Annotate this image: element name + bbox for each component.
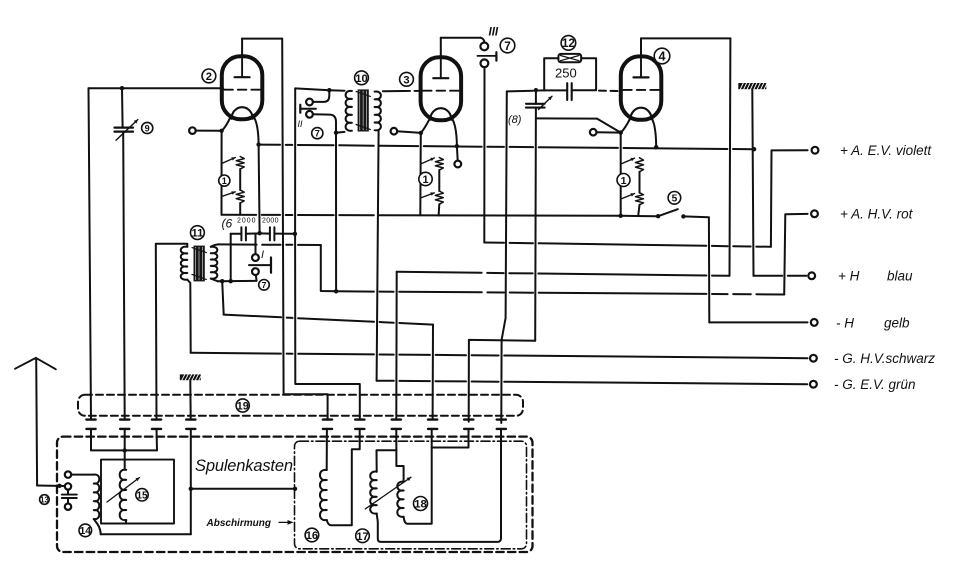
svg-text:1: 1 — [621, 175, 627, 187]
svg-text:- G. E.V. grün: - G. E.V. grün — [834, 377, 916, 392]
resistor R1 (V2) link — [239, 169, 241, 190]
wire: jack II bottom hook — [313, 114, 336, 132]
node: bus end at chassis stem — [752, 147, 756, 151]
wire: connector C drop — [395, 272, 397, 420]
terminal: below V3 cathode — [456, 146, 459, 160]
arrow: V2 pot tap lower — [222, 192, 236, 197]
wire: V4 grid row — [507, 90, 544, 91]
wire: V2 grid lead — [196, 130, 222, 132]
wire: switch to gelb drop — [683, 216, 709, 322]
wire: rot row to switch — [621, 215, 658, 217]
wire: V3 cathode-left lead — [421, 119, 430, 133]
resistor R1 (V2) upper element — [236, 157, 244, 170]
capacitor C8 (trimmer) plates — [526, 103, 545, 105]
wire: anode HT bus — [259, 145, 754, 150]
wire: V4 anode to reaction rail — [640, 38, 642, 55]
label circle 15 — [136, 489, 148, 502]
capacitor C13 (antenna series) — [62, 494, 77, 496]
connector pair (ant rail) — [86, 420, 95, 429]
transformer T10 primary coil — [346, 91, 352, 131]
svg-text:11: 11 — [191, 228, 203, 240]
label circle 9 — [142, 122, 153, 133]
wire: trimmer top stem — [535, 90, 537, 104]
jack II — [306, 99, 313, 106]
transformer T11 primary coil — [181, 247, 188, 280]
svg-text:7: 7 — [504, 39, 511, 53]
wire: caps row mid — [246, 232, 260, 234]
wire: L17 top lead — [377, 450, 397, 471]
resistor R1 (V3) lower element — [435, 191, 443, 204]
wire: small chassis stem — [189, 380, 191, 419]
chassis symbol (right) — [738, 83, 766, 89]
resistor R1 (V4) link — [639, 172, 641, 193]
node: antenna/box junction — [57, 484, 61, 488]
wire: R1 (V4) bottom — [638, 205, 639, 216]
svg-text:I: I — [261, 249, 264, 261]
jack I — [252, 254, 259, 261]
svg-text:II: II — [298, 119, 304, 129]
arrow: L18 variometer — [365, 477, 411, 509]
label circle 7 (jack III) — [500, 38, 515, 53]
node: V2 cathode bus junction — [256, 142, 260, 146]
wire: grid leak right leg — [581, 58, 596, 90]
transformer T10 core — [358, 89, 369, 131]
wire: trimmer C9 branch lower to connector — [123, 133, 125, 420]
capacitor C (grid) plates — [566, 83, 568, 100]
wire: L17 bottom route to connector F — [377, 429, 501, 542]
wire: U right leg (jack II to U junction) — [335, 133, 337, 292]
terminal: -G.H.V. schwarz — [810, 355, 817, 362]
node: L15/link junction — [123, 448, 127, 452]
wire: V2 anode drop rail x=283 — [282, 39, 327, 420]
transformer T11 secondary coil — [211, 247, 218, 279]
wire: jack I stem — [255, 234, 257, 254]
wire: rail x=295 (T10 top to coil16 bottom) — [295, 88, 360, 419]
svg-text:2: 2 — [206, 71, 212, 83]
node: row282 / caps leg — [229, 279, 233, 283]
wire: V2 cathode-left lead — [222, 118, 230, 131]
jack III top terminal — [480, 43, 488, 51]
label circle 17 — [356, 529, 370, 543]
label circle 1 (V4) — [617, 174, 630, 187]
capacitor C6a 2000pF — [240, 227, 242, 240]
svg-text:10: 10 — [355, 73, 367, 85]
jack III bottom terminal — [481, 59, 489, 67]
wire: T11 secondary top lead (U to detector) — [211, 244, 219, 246]
connector pair (coil16 top) — [323, 420, 332, 429]
label circle 16 — [305, 528, 319, 542]
svg-text:19: 19 — [237, 400, 249, 412]
wire: L16 top stem — [326, 429, 328, 470]
label circle 5 — [668, 192, 681, 205]
node: caps midpoint — [257, 231, 261, 235]
svg-text:Abschirmung: Abschirmung — [206, 518, 271, 529]
wire: link connectors 91-157 — [90, 429, 92, 451]
node: row282 / reaction drop — [220, 279, 224, 283]
wire: coil18 top jog — [396, 466, 403, 482]
coil L18 — [397, 482, 403, 517]
svg-text:16: 16 — [306, 530, 318, 542]
terminal: V3 grid — [391, 128, 398, 135]
coil L14 — [94, 474, 99, 519]
wire: rot terminal riser — [784, 214, 807, 295]
node: trimmer top junction — [534, 88, 538, 92]
wire: T10 grid-side bottom — [336, 131, 345, 134]
wire: T10 secondary bottom to gruen — [377, 130, 379, 381]
capacitor C9 (trimmer) plates — [115, 126, 134, 128]
wire: caps row left stub — [231, 233, 242, 235]
resistor R1 (V4) lower element — [636, 193, 644, 205]
wire: V2 cathode down to coupling caps — [259, 145, 260, 234]
svg-text:Spulenkasten: Spulenkasten — [195, 457, 293, 475]
wire: blau right segment — [754, 275, 807, 277]
wire: T11 secondary bottom lead — [211, 279, 218, 282]
svg-text:(8): (8) — [508, 114, 522, 126]
wire: V4 grid row corner+rail — [501, 91, 507, 423]
svg-text:12: 12 — [562, 36, 576, 50]
wire: detector HT row (to rot terminal) — [336, 291, 784, 294]
svg-text:+ A. E.V. violett: + A. E.V. violett — [840, 143, 932, 158]
terminal: V4 grid — [590, 129, 597, 136]
wire: L15 bottom to shield — [125, 520, 127, 524]
node: V4 grid junction — [619, 130, 623, 134]
wire: reaction rail drop (v2) — [729, 38, 732, 275]
connector pair (coil17/18 top) — [392, 420, 401, 429]
svg-text:7: 7 — [315, 129, 320, 139]
transformer T10 secondary coil — [375, 91, 381, 130]
wire: trimmer bottom stem — [534, 108, 537, 341]
wire: caps left leg down — [230, 234, 232, 281]
svg-text:15: 15 — [136, 490, 148, 501]
label circle 7 (jack II) — [312, 128, 323, 139]
jack 13 terminals — [65, 471, 71, 477]
node: V2 grid junction — [219, 129, 223, 133]
svg-text:250: 250 — [555, 66, 577, 81]
wire: schwarz row — [191, 353, 808, 358]
tube V2 (circled 2) — [222, 56, 262, 119]
wire: V3 grid lead — [397, 131, 421, 133]
wire: V4 grid dashed row — [599, 90, 620, 92]
svg-text:2000: 2000 — [262, 218, 279, 225]
shield box inner (dash-dot) — [295, 441, 527, 549]
wire: V3 anode to jack III — [440, 38, 442, 56]
svg-text:5: 5 — [672, 194, 678, 205]
capacitor C6b 2000pF — [269, 227, 271, 240]
connector pair (ground) — [186, 420, 195, 429]
label circle 10 — [355, 71, 369, 85]
coil L15 — [120, 470, 127, 521]
capacitor C9 trimmer arrow — [116, 120, 138, 141]
connector pair (trimmer rail) — [120, 420, 129, 429]
wire: V2 pot rail — [221, 131, 223, 215]
wire: grid cap row left — [544, 89, 567, 91]
wire: blau/reaction row — [397, 272, 730, 276]
coil L16 — [320, 470, 327, 520]
wire: V4 grid lead — [597, 131, 621, 133]
tube V4 (circled 4) — [621, 56, 662, 119]
chassis symbol (small, on board) — [180, 374, 201, 380]
label circle 11 — [191, 226, 205, 240]
wire: caps row right — [274, 233, 295, 235]
wire: antenna lead-in vertical — [35, 358, 38, 485]
wire: L18 bottom route to connector D — [404, 429, 432, 524]
tube V3 (circled 3) — [421, 57, 462, 120]
node: caps to rail x=295 — [293, 232, 297, 236]
switch S5 blade — [658, 209, 678, 216]
svg-text:+ H: + H — [838, 269, 860, 284]
label circle 1 (V2) — [219, 175, 230, 186]
svg-text:7: 7 — [262, 280, 267, 290]
wire: gruen row — [377, 381, 808, 385]
wire: connector E row — [469, 339, 535, 342]
node: bus/V4 junction — [654, 145, 658, 149]
label circle 14 — [79, 524, 92, 537]
label circle 19 — [236, 399, 249, 412]
node: T10 bottom junction — [334, 131, 338, 135]
coil L15 shield box — [101, 460, 174, 524]
wire: V3 right lead to bus — [452, 119, 457, 146]
wire: R1 (V3) bottom — [438, 204, 441, 215]
terminal: +A.E.V. violett — [812, 147, 819, 154]
node: bus to shield box — [293, 487, 297, 491]
wire: jack II top hook — [313, 90, 330, 102]
wire: R1 bottom to +A.H.V. row — [239, 203, 241, 215]
terminal: V2 grid — [189, 127, 196, 134]
label circle 2 — [202, 69, 216, 83]
svg-text:- H: - H — [836, 316, 854, 331]
svg-text:gelb: gelb — [884, 316, 910, 331]
node: T10 top junction — [327, 88, 331, 92]
arrow: V4 pot tap lower — [621, 194, 635, 200]
node: bus/V3 junction — [455, 144, 459, 148]
svg-text:2000: 2000 — [237, 217, 256, 224]
node: box bus junction — [189, 487, 193, 491]
connector pair (gridF) — [497, 420, 506, 429]
wire: V2 right lead to HT bus — [254, 118, 258, 145]
label circle 7 (jack I) — [259, 280, 270, 291]
svg-text:1: 1 — [422, 174, 428, 186]
wire: V4 pot rail — [620, 133, 622, 216]
wire: T11 primary top lead — [156, 244, 188, 420]
arrow: V4 pot tap upper — [621, 158, 635, 164]
node: V4 pot junction — [619, 214, 623, 218]
wire: reaction row to coil 18 connector — [224, 315, 433, 325]
label circle 13 — [40, 495, 50, 505]
svg-text:3: 3 — [403, 74, 409, 86]
node: switch S5 right contact — [681, 214, 685, 218]
wire: grid leak left leg — [544, 58, 558, 90]
resistor R12 grid leak 250 (boxed) — [558, 54, 581, 62]
node: V3 grid junction — [419, 131, 423, 135]
wire: T10 grid-side top — [295, 88, 329, 90]
node: junction top-left — [120, 86, 124, 90]
svg-text:III: III — [489, 27, 499, 39]
wire: left rail down to chassis connector — [89, 88, 92, 419]
resistor R1 (V4) upper element — [636, 158, 644, 172]
arrow: V3 pot tap upper — [421, 158, 435, 164]
label circle 12 — [561, 36, 576, 51]
coil L17 — [370, 472, 377, 514]
label circle 1 (V3) — [419, 172, 432, 186]
terminal: -G.E.V. gruen — [810, 381, 817, 388]
wire: V3 pot rail — [419, 133, 422, 215]
wire: top-left horizontal (tube 2 grid line to left rail) — [89, 87, 224, 89]
svg-text:+ A. H.V. rot: + A. H.V. rot — [840, 207, 914, 222]
transformer T11 core — [194, 246, 205, 282]
coil box outer (dashed) — [57, 437, 533, 552]
svg-text:blau: blau — [887, 269, 913, 284]
wire: grid cap row right — [572, 89, 596, 91]
resistor R1 (V2) lower element — [236, 190, 244, 203]
wire: connector E stem into box — [432, 429, 469, 448]
wire: violett feed row — [484, 243, 771, 247]
svg-text:14: 14 — [80, 526, 92, 537]
wire: box internal bus — [191, 488, 295, 490]
svg-text:17: 17 — [356, 531, 368, 543]
node: U junction — [334, 289, 338, 293]
wire: drop to reaction row — [222, 281, 224, 314]
label circle 18 — [414, 497, 428, 511]
wire: gelb row to terminal — [709, 321, 807, 323]
svg-text:1: 1 — [222, 176, 227, 186]
wire: grid-return row 282 — [218, 280, 257, 283]
antenna arrow — [15, 358, 56, 369]
chassis board 19 (dashed strip) — [78, 395, 523, 416]
svg-text:4: 4 — [658, 50, 665, 64]
wire: trimmer tap to V4 grid — [536, 117, 597, 119]
terminal: +A.H.V. rot — [811, 210, 818, 217]
connector pair (coil18 bottom) — [428, 420, 437, 429]
jack III crossbar — [477, 55, 496, 57]
arrow: V2 pot tap upper — [222, 158, 236, 164]
wire: V4 right lead to bus — [652, 119, 656, 148]
svg-text:9: 9 — [145, 123, 150, 133]
wire: connector D drop — [432, 325, 434, 420]
connector pair (coil16 bottom) — [355, 420, 364, 429]
wire: connector C stem into box — [395, 429, 397, 466]
wire: L14 bottom lead — [94, 519, 101, 534]
resistor R1 (V3) upper element — [435, 158, 443, 171]
connector pair (T11 top) — [152, 420, 161, 429]
arrow: L15 coupling — [107, 478, 140, 503]
wire: jack III to violett row — [483, 67, 485, 242]
wire: L15 top stem — [124, 429, 126, 470]
node: switch S5 left contact — [656, 214, 660, 218]
arrow: V3 pot tap lower — [420, 193, 434, 198]
svg-text:18: 18 — [414, 499, 427, 511]
terminal: -H gelb — [811, 319, 818, 326]
wire: jack13 cap stems — [67, 490, 69, 495]
wire: violett riser — [771, 150, 808, 247]
arrow: Abschirmung pointer — [279, 521, 287, 523]
resistor R1 (V3) link — [438, 170, 440, 191]
wire: V4 cathode-left lead — [621, 118, 630, 132]
terminal: +H blau — [808, 272, 815, 279]
label circle 3 — [400, 72, 414, 86]
wire: L16 bottom route to connector A — [327, 429, 360, 525]
wire: T11 primary bottom to schwarz — [187, 280, 190, 353]
wire: ground rail into box — [190, 429, 192, 534]
wire: bias row (rot) — [222, 215, 621, 216]
label circle 4 — [654, 48, 670, 64]
wire: T10 secondary top to V3 grid — [383, 90, 403, 92]
wire: chassis stem — [752, 89, 753, 276]
wire: connector E drop — [468, 340, 470, 422]
svg-text:- G. H.V.schwarz: - G. H.V.schwarz — [834, 351, 935, 366]
capacitor C8 trimmer arrow — [539, 96, 553, 109]
connector pair (gridE) — [464, 420, 473, 429]
svg-text:(6: (6 — [222, 217, 233, 231]
wire: antenna to jack 13 — [37, 485, 65, 488]
svg-text:13: 13 — [40, 495, 49, 504]
wire: V2 anode to top rail — [242, 38, 282, 40]
wire: jack I bottom hook — [255, 275, 258, 281]
wire: jack13 to coil 14 — [71, 474, 94, 476]
wire: trimmer C9 branch upper — [121, 88, 124, 126]
